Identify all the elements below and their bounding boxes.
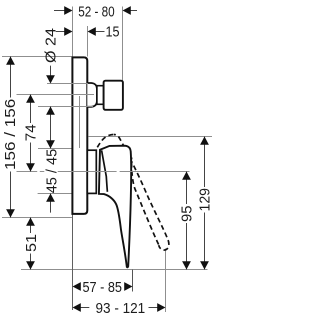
dimension: 95 (right) xyxy=(186,172,188,270)
dashed lever, outer edge xyxy=(114,135,169,251)
dimension: Ø 24 (left, vertical arrow down) xyxy=(50,66,52,76)
svg-text:15: 15 xyxy=(106,24,120,41)
svg-text:129: 129 xyxy=(197,188,214,212)
dashed lever, inner edge xyxy=(132,158,159,245)
overlay extension lines xyxy=(17,84,190,172)
cartridge cone xyxy=(87,83,97,107)
lever (solid) xyxy=(99,146,131,268)
lever neck front edge xyxy=(102,150,108,191)
cartridge centerline xyxy=(17,94,95,96)
svg-text:93 - 121: 93 - 121 xyxy=(96,300,146,317)
sleeve top horizontal extension xyxy=(47,83,88,85)
dimension: 74 (left) xyxy=(30,95,32,172)
svg-text:51: 51 xyxy=(23,234,40,252)
handle hub xyxy=(87,150,96,193)
svg-text:74: 74 xyxy=(23,124,40,141)
inner plate line xyxy=(79,96,81,148)
dimension: 57 - 85 (bottom row 1) xyxy=(73,282,81,291)
dimension: 51 (bottom left) xyxy=(30,218,32,270)
15-dim right vertical extension xyxy=(87,26,89,57)
dimension: 15 (second row) xyxy=(56,31,105,33)
extension lines (gray) xyxy=(2,7,212,313)
svg-text:156 / 156: 156 / 156 xyxy=(2,99,19,170)
plate bottom horizontal extension xyxy=(2,217,73,219)
svg-text:57 - 85: 57 - 85 xyxy=(83,279,123,296)
hub top horizontal extension xyxy=(38,148,73,150)
wall/plate-left vertical extension xyxy=(72,7,74,214)
dimension: 93 - 121 (bottom row 2) xyxy=(81,307,158,309)
dashed lever, top edge xyxy=(97,135,114,148)
lower 45 horizontal extension xyxy=(38,193,73,195)
dashed-lever top horizontal extension xyxy=(89,136,213,138)
plate top horizontal extension xyxy=(2,56,72,58)
dashed-handle-tip vertical extension xyxy=(165,249,167,313)
svg-text:45 / 45: 45 / 45 xyxy=(43,149,60,194)
sleeve bottom horizontal extension xyxy=(38,106,93,108)
52-80 right vertical extension xyxy=(122,7,124,81)
svg-text:95: 95 xyxy=(179,206,196,223)
dimension: 45 / 45 (left) xyxy=(50,107,52,149)
bottom tips horizontal extension xyxy=(21,269,208,271)
dimension: 129 (far right) xyxy=(204,137,206,270)
solid-handle-tip vertical extension xyxy=(132,270,134,292)
centerline gap xyxy=(117,171,120,173)
cartridge neck xyxy=(97,86,104,105)
handle axis centerline xyxy=(17,171,190,173)
svg-text:Ø 24: Ø 24 xyxy=(42,28,59,63)
wall plate xyxy=(72,57,87,214)
cartridge cylinder xyxy=(104,81,123,110)
dimension: 156 / 156 (far left) xyxy=(10,57,12,218)
wall line below plate xyxy=(72,213,74,310)
dimension: 52 - 80 (top row) xyxy=(54,10,137,12)
svg-text:52 - 80: 52 - 80 xyxy=(78,3,115,20)
